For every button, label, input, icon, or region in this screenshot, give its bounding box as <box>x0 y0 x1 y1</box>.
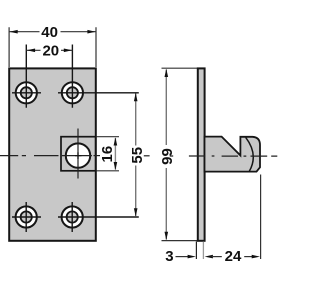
center circle tick cross <box>75 152 82 159</box>
dim 40 line <box>9 31 96 33</box>
svg-text:3: 3 <box>165 248 173 265</box>
hole bottom-left <box>12 202 41 232</box>
hole top-left <box>12 45 41 108</box>
side view hook arm <box>205 137 261 172</box>
front view plate <box>9 68 96 240</box>
center circle <box>66 143 90 167</box>
dim 24 line right arrow <box>244 256 253 258</box>
centerline through circle <box>62 155 92 157</box>
dim 55 arrows <box>134 93 138 101</box>
svg-text:55: 55 <box>129 147 146 164</box>
dim 99 extension bottom <box>162 240 198 242</box>
center circle vertical crosshair <box>77 129 79 179</box>
dim 40 arrows <box>9 30 17 34</box>
side view plate <box>198 68 205 240</box>
dim 99 line <box>165 70 167 240</box>
svg-text:20: 20 <box>42 43 59 60</box>
dim 16 arrows <box>114 137 118 145</box>
dim 16 extension lines <box>97 137 120 171</box>
centerline dash at plate edge <box>94 155 101 157</box>
dim 3 extension lines <box>195 242 197 260</box>
dim 16 line <box>114 138 116 170</box>
svg-text:16: 16 <box>99 146 116 163</box>
svg-text:40: 40 <box>41 24 58 41</box>
dim 3 leader line + arrow <box>176 256 189 258</box>
dim 20 arrows <box>27 49 35 53</box>
centerline side view <box>170 155 277 157</box>
centerline front view (dash-dot) <box>0 155 59 157</box>
hook nose arc <box>246 137 254 171</box>
hole top-right <box>58 45 139 108</box>
svg-text:24: 24 <box>225 248 242 265</box>
dim 24 line left arrow <box>205 255 213 259</box>
dim 40 extension lines <box>9 27 96 67</box>
dim 55 line <box>135 94 137 217</box>
center square cutout outline <box>61 137 96 171</box>
dim 99 arrows <box>165 69 169 77</box>
dim 99 extension top <box>162 67 198 69</box>
svg-text:99: 99 <box>159 148 176 165</box>
centerline dash between 55 and 99 <box>144 155 150 157</box>
dim 24 extension line <box>260 175 262 260</box>
dim 20 line <box>27 49 73 51</box>
hole bottom-right <box>58 202 139 232</box>
